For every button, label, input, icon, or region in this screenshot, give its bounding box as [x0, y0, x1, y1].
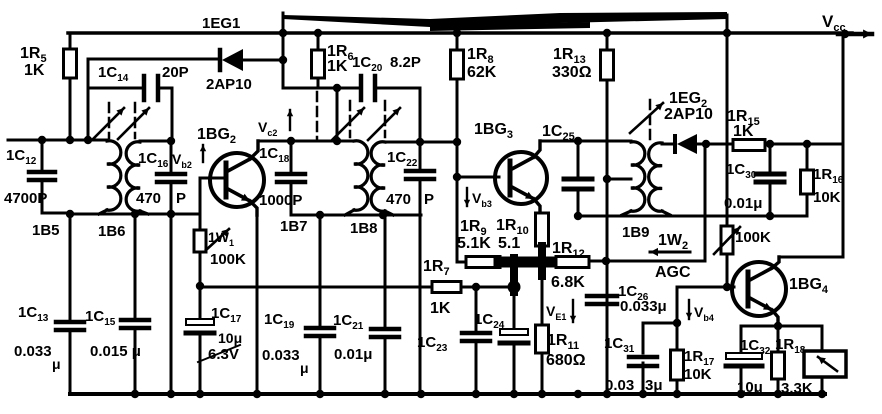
1BG2 collector wire — [250, 141, 258, 159]
wire AGC to base / node Vb4 — [723, 283, 731, 291]
svg-text:1K: 1K — [24, 62, 45, 79]
node C25 top — [574, 137, 582, 145]
bus node dots — [131, 390, 139, 398]
capacitor C23 1C23 — [475, 287, 478, 331]
node C31 branch — [673, 319, 681, 327]
transformer 1B7 trimmer dashes — [349, 101, 352, 137]
capacitor C31 1C31 0.033u — [643, 322, 677, 325]
node rail/1C16 line — [167, 210, 175, 218]
node diode/loop2 drop — [279, 56, 287, 64]
svg-text:6.3V: 6.3V — [208, 346, 239, 363]
transformer 1B9 primary winding — [631, 142, 645, 211]
capacitor C16 1C16 470P — [170, 141, 173, 172]
AGC wire — [589, 260, 705, 263]
capacitor C21 1C21 0.01u — [384, 215, 387, 327]
node tap 1B9 — [603, 175, 611, 183]
transformer 1B9 trimmer dash — [649, 100, 652, 140]
thermistor box — [821, 326, 824, 351]
resistor R11 1R11 680ohm — [536, 325, 549, 353]
transformer 1B9 trimmer arrow — [630, 103, 663, 133]
resistor R18 1R18 3.3K — [777, 326, 780, 352]
node rail3 left — [574, 212, 582, 220]
resistor R17 1R17 10K — [671, 350, 684, 380]
capacitor C24 1C24 — [513, 287, 516, 329]
svg-text:0.01μ: 0.01μ — [334, 346, 372, 363]
node Vcc right drop — [841, 30, 849, 38]
svg-text:100K: 100K — [210, 251, 246, 268]
svg-text:1K: 1K — [733, 123, 754, 140]
tap wire — [607, 178, 631, 181]
svg-text:0.033: 0.033 — [262, 347, 300, 364]
node AGC/R13 line — [602, 257, 610, 265]
svg-text:8.2P: 8.2P — [390, 54, 421, 71]
wire 1B6 top to C16 node — [140, 140, 172, 143]
svg-text:μ: μ — [300, 360, 309, 376]
node 1R6 top — [314, 29, 322, 37]
transformer 1B5 trimmer dashes — [108, 103, 111, 138]
resistor R8 1R8 62K — [456, 33, 459, 50]
potentiometer W2 1W2 100K — [721, 226, 733, 254]
transformer 1B7 trimmer arrows — [332, 108, 364, 140]
capacitor C18 1C18 1000P — [290, 141, 293, 172]
potentiometer W1 1W1 100K — [194, 230, 206, 252]
svg-text:330Ω: 330Ω — [552, 64, 592, 81]
svg-text:6.8K: 6.8K — [551, 274, 585, 291]
node rail/R5-C13 line — [66, 210, 74, 218]
node rail3/C30 — [766, 212, 774, 220]
junction blob — [499, 257, 550, 268]
AGC arrow — [650, 251, 690, 254]
node loop2 left arm — [333, 137, 341, 145]
transistor Q2 1BG2 — [210, 153, 264, 207]
Vb4 label arrow — [688, 300, 690, 319]
capacitor C19 1C19 0.033u — [319, 215, 322, 326]
cell3 bottom rail — [578, 215, 807, 218]
Vcc arrow — [838, 32, 872, 37]
transformer 1B6 secondary winding — [126, 142, 140, 211]
collector wire to 1B9 — [540, 140, 631, 143]
capacitor C12 1C12 4700P — [41, 140, 44, 170]
1BG4 emitter wire — [772, 310, 778, 326]
node rail/1C15 — [131, 210, 139, 218]
svg-text:10μ: 10μ — [737, 379, 763, 396]
svg-text:1B9: 1B9 — [622, 224, 650, 241]
transistor Q3 1BG3 — [495, 152, 547, 204]
cell2 top wire — [258, 140, 354, 143]
top supply band — [283, 12, 727, 27]
svg-text:μ: μ — [52, 356, 61, 372]
node rail2/1B8 — [379, 211, 387, 219]
transformer 1B5 trimmer arrows — [93, 108, 124, 139]
svg-text:1B7: 1B7 — [280, 218, 308, 235]
diode 1EG1 2AP10 — [218, 50, 223, 70]
1BG2 emitter wire — [250, 201, 257, 215]
svg-text:1B5: 1B5 — [32, 222, 60, 239]
1BG3 collector wire — [534, 141, 540, 157]
loop2 wires — [283, 87, 361, 90]
node emitter — [774, 322, 782, 330]
svg-text:AGC: AGC — [655, 264, 691, 281]
1BG3 emitter wire — [534, 199, 540, 213]
svg-text:1000P: 1000P — [259, 192, 302, 209]
svg-text:1K: 1K — [327, 58, 348, 75]
node detector out — [702, 140, 710, 148]
svg-text:2AP10: 2AP10 — [664, 106, 713, 123]
capacitor C22 1C22 470P — [419, 142, 422, 169]
1W1 base line — [200, 177, 226, 180]
wire cell1 bottom rail — [70, 213, 200, 216]
bias bus wire y287 — [200, 286, 514, 289]
svg-text:0.015 μ: 0.015 μ — [90, 343, 141, 360]
svg-text:0.033: 0.033 — [14, 343, 52, 360]
bias wire y262 — [457, 261, 558, 264]
node Vb2 / C16 top — [167, 137, 175, 145]
svg-text:1K: 1K — [430, 300, 451, 317]
capacitor C32 1C32 10u — [740, 326, 743, 353]
node C18 top — [287, 137, 295, 145]
Vb3 label arrow — [466, 188, 468, 206]
capacitor C13 1C13 0.033u — [69, 214, 72, 320]
resistor R16 1R16 10K — [806, 144, 809, 170]
svg-text:3μ: 3μ — [645, 377, 663, 394]
dashed core line below R6 — [316, 92, 319, 140]
ground bus — [70, 392, 825, 396]
resistor R15 1R15 1K — [733, 140, 765, 151]
svg-text:5.1: 5.1 — [498, 235, 520, 252]
capacitor C26 1C26 0.033u — [587, 294, 617, 299]
svg-text:0.033μ: 0.033μ — [620, 298, 667, 315]
svg-text:P: P — [424, 191, 434, 208]
resistor R6 1R6 1K — [317, 33, 320, 50]
resistor R12 1R12 6.8K — [556, 257, 589, 268]
svg-text:5.1K: 5.1K — [457, 235, 491, 252]
svg-text:10K: 10K — [684, 366, 712, 383]
node on rail at 1C14 loop drop — [279, 29, 287, 37]
svg-text:10μ: 10μ — [218, 330, 242, 346]
cell2 bottom rail — [291, 214, 421, 217]
transformer 1B5 primary winding — [107, 141, 121, 210]
svg-text:0.03: 0.03 — [605, 377, 634, 394]
input wire — [8, 139, 107, 142]
node rail2/C19 — [316, 211, 324, 219]
resistor R5 1R5 — [69, 33, 72, 49]
transformer 1B7 primary winding — [354, 141, 368, 210]
capacitor C17 1C17 10u 6.3V — [199, 286, 202, 319]
node loop2 junction — [333, 84, 341, 92]
1BG4 collector wire — [772, 257, 779, 268]
node input/1C12 — [38, 136, 46, 144]
svg-text:4700P: 4700P — [4, 190, 47, 207]
diode 1EG2 2AP10 — [662, 143, 674, 146]
resistor R9 1R9 5.1K — [466, 257, 500, 268]
resistor R13 1R13 330ohm — [606, 33, 609, 50]
node bias bus left — [196, 282, 204, 290]
svg-text:0.01μ: 0.01μ — [724, 195, 762, 212]
1C14 feedback loop wires — [87, 59, 90, 140]
svg-text:62K: 62K — [467, 64, 497, 81]
node 1C14 loop left — [84, 136, 92, 144]
svg-text:1EG1: 1EG1 — [202, 15, 240, 32]
svg-text:100K: 100K — [735, 229, 771, 246]
node 1R8 top — [453, 29, 461, 37]
svg-text:2AP10: 2AP10 — [206, 76, 252, 93]
svg-text:P: P — [176, 190, 186, 207]
svg-text:470: 470 — [136, 190, 161, 207]
node C30 top — [766, 140, 774, 148]
transformer 1B9 secondary winding — [649, 143, 662, 211]
resistor R10 1R10 5.1 — [536, 213, 549, 246]
node base 1BG3 — [453, 173, 461, 181]
capacitor C25 1C25 — [577, 141, 580, 176]
svg-text:3.3K: 3.3K — [781, 380, 813, 397]
svg-text:470: 470 — [386, 191, 411, 208]
1W2 line from top band — [726, 15, 729, 226]
1BG3 base wire — [457, 176, 499, 179]
node input/R5 line — [66, 136, 74, 144]
capacitor C15 1C15 0.015u — [134, 214, 137, 318]
node 1B8 top / R8 line — [453, 138, 461, 146]
node C22 top — [416, 138, 424, 146]
svg-text:1B8: 1B8 — [350, 220, 378, 237]
svg-text:680Ω: 680Ω — [546, 352, 586, 369]
capacitor C14 1C14 20P — [142, 76, 147, 100]
resistor R7 1R7 1K — [432, 282, 461, 293]
node 1W2 drop — [723, 29, 731, 37]
emitter rail 1BG4 — [741, 325, 822, 328]
transistor Q4 1BG4 — [732, 262, 786, 316]
capacitor C20 1C20 8.2P — [359, 76, 364, 100]
svg-text:1B6: 1B6 — [98, 223, 126, 240]
svg-text:10K: 10K — [813, 189, 841, 206]
right vcc drop — [842, 33, 845, 257]
node R16 top — [803, 140, 811, 148]
svg-text:20P: 20P — [162, 64, 189, 81]
base wire 1BG4 — [677, 286, 734, 289]
node 1R13 top — [603, 29, 611, 37]
transformer 1B8 secondary winding — [371, 142, 385, 211]
node C23 top — [472, 283, 480, 291]
capacitor C30 1C30 0.01u — [769, 144, 772, 172]
Vcc rail — [68, 31, 852, 35]
